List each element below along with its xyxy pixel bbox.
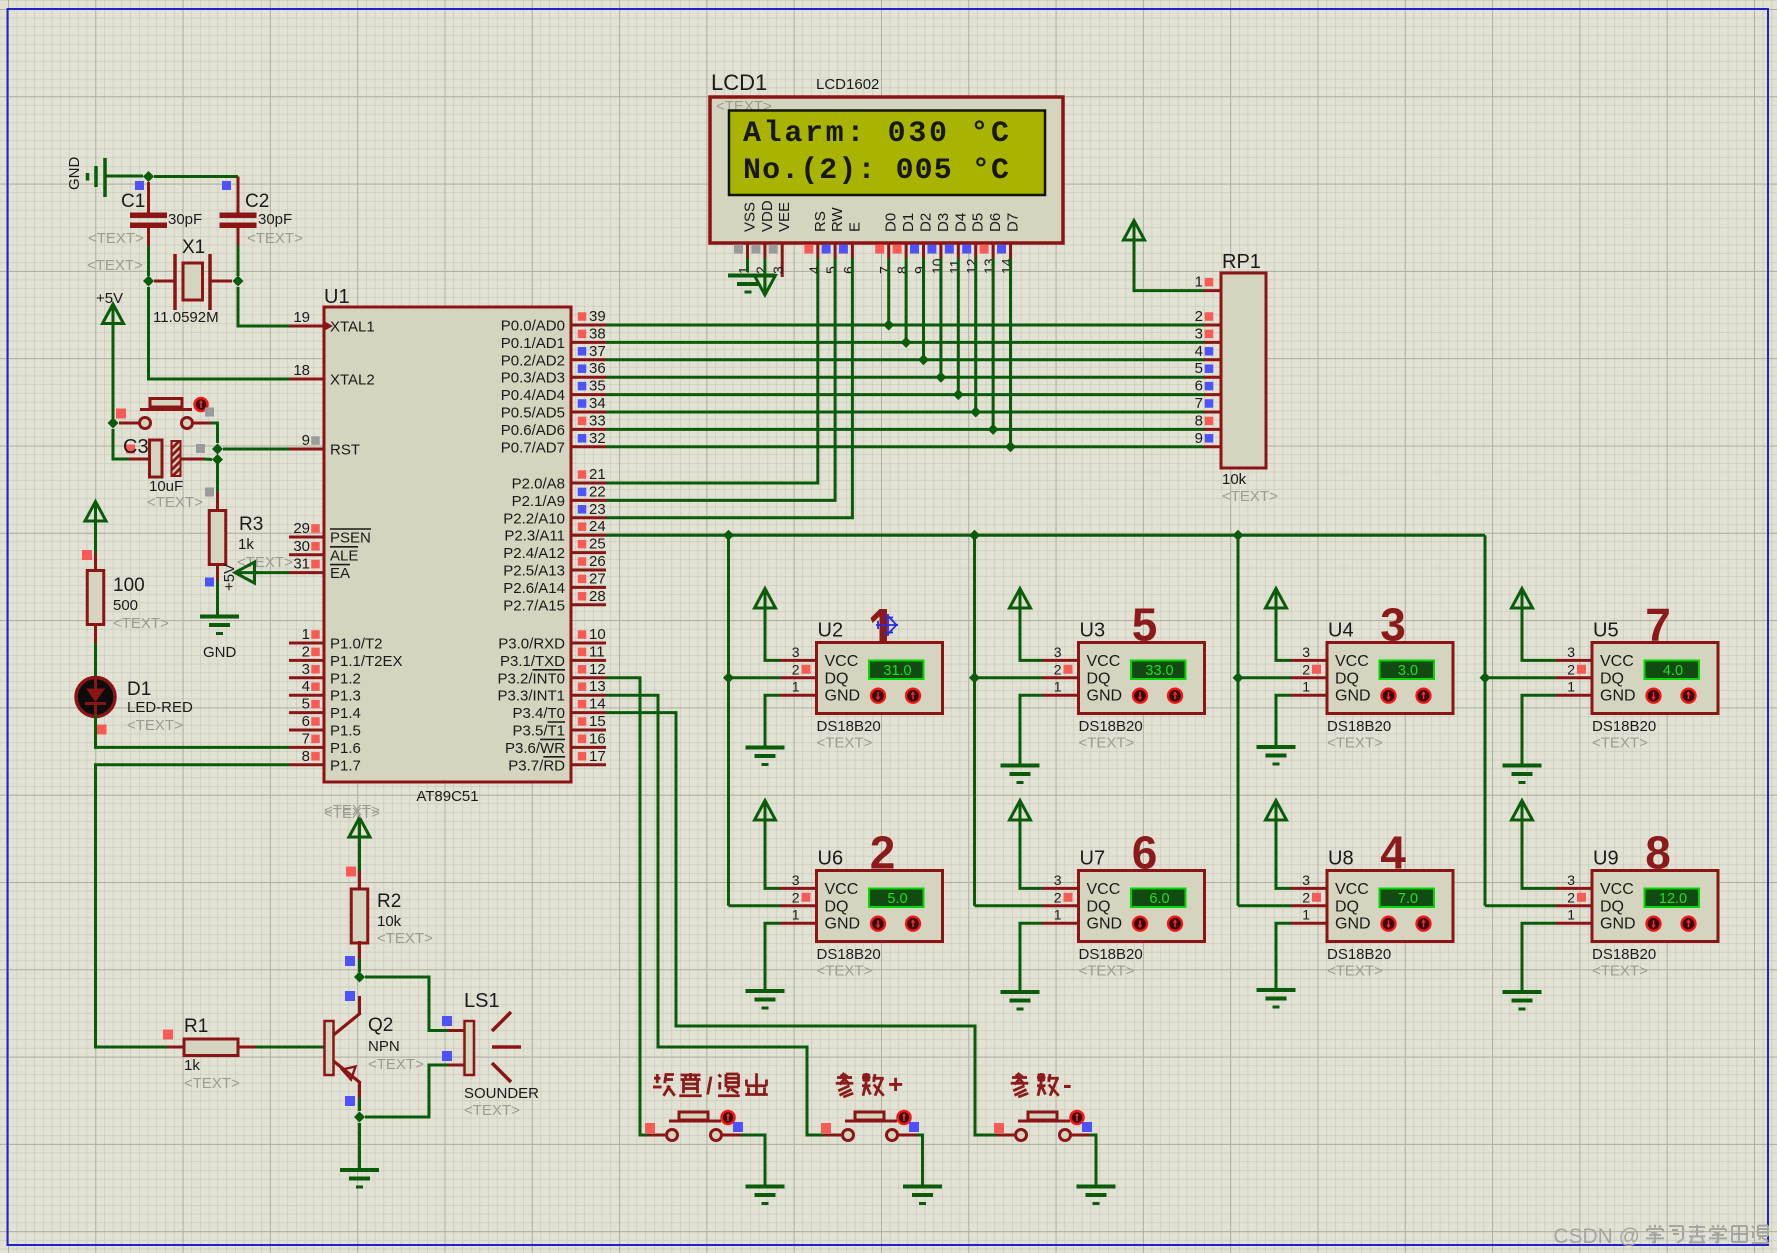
svg-text:100: 100 — [113, 575, 145, 596]
svg-text:27: 27 — [589, 570, 606, 587]
wire VCC U7 — [1020, 819, 1043, 889]
wire +5V rail to C3 — [113, 429, 129, 459]
ground terminal (top-left GND) — [66, 157, 143, 198]
ground (button PLUS) — [903, 1185, 942, 1189]
pin 28 P2.7/A15 — [503, 588, 606, 615]
svg-text:2: 2 — [1302, 661, 1310, 677]
pin 16 P3.6/WR — [505, 730, 606, 757]
svg-text:GND: GND — [1087, 688, 1123, 705]
wire DQ U6 — [729, 904, 781, 907]
svg-text:GND: GND — [1600, 916, 1636, 933]
svg-text:ALE: ALE — [330, 547, 358, 564]
pin 11 P3.1/TXD — [500, 643, 606, 670]
svg-text:4: 4 — [806, 266, 822, 274]
svg-text:Q2: Q2 — [368, 1015, 393, 1036]
svg-text:16: 16 — [589, 730, 606, 747]
svg-text:2: 2 — [1567, 889, 1575, 905]
svg-text:10k: 10k — [377, 913, 402, 930]
pin 35 P0.4/AD4 — [501, 378, 606, 405]
pin 14 LCD — [997, 243, 1015, 274]
pin 15 P3.5/T1 — [512, 713, 606, 740]
power +5V (U2) — [755, 589, 776, 609]
wire P3.3 to button PLUS — [606, 695, 823, 1135]
wire LCD D2 to P0.2 — [922, 258, 925, 360]
svg-text:2: 2 — [302, 643, 310, 660]
svg-text:C3: C3 — [123, 436, 149, 458]
svg-text:XTAL2: XTAL2 — [330, 372, 375, 389]
pin 6 LCD — [839, 243, 857, 274]
svg-text:10k: 10k — [1222, 471, 1247, 488]
ground (below U5) — [1503, 764, 1542, 768]
svg-text:VEE: VEE — [776, 202, 793, 232]
svg-text:<TEXT>: <TEXT> — [1327, 963, 1383, 980]
svg-text:VCC: VCC — [1335, 653, 1369, 670]
svg-text:D0: D0 — [883, 213, 900, 232]
svg-text:<TEXT>: <TEXT> — [368, 1056, 424, 1073]
svg-text:6.0: 6.0 — [1149, 891, 1169, 907]
svg-text:P1.0/T2: P1.0/T2 — [330, 636, 383, 653]
svg-text:D2: D2 — [918, 213, 935, 232]
svg-text:P0.5/AD5: P0.5/AD5 — [501, 405, 565, 422]
wire LCD pin 6 to P2.2 — [606, 258, 852, 518]
svg-text:1k: 1k — [238, 536, 254, 553]
power +5V (U7) — [1010, 801, 1031, 821]
sensor U6 DS18B20 — [781, 827, 943, 980]
svg-text:DS18B20: DS18B20 — [1327, 718, 1391, 735]
label PARAM+ — [836, 1069, 903, 1099]
svg-text:32: 32 — [589, 430, 606, 447]
node button/+5V — [108, 418, 119, 429]
svg-text:VCC: VCC — [825, 881, 859, 898]
wire GND rail to C2 — [154, 175, 238, 178]
pin 11 LCD — [945, 243, 963, 274]
wire DQ bus down col4 — [1484, 535, 1487, 906]
svg-text:NPN: NPN — [368, 1038, 400, 1055]
ground (below U6) — [746, 989, 785, 993]
svg-text:4: 4 — [1195, 343, 1203, 360]
svg-text:11.0592M: 11.0592M — [153, 309, 219, 326]
svg-text:DS18B20: DS18B20 — [1592, 718, 1656, 735]
svg-text:12: 12 — [964, 258, 980, 274]
wire P3.2 to button SET — [606, 678, 647, 1135]
pin 7 P1.6 — [289, 730, 361, 757]
svg-text:15: 15 — [589, 713, 606, 730]
node X1 right — [233, 276, 244, 287]
svg-text:2: 2 — [1567, 661, 1575, 677]
svg-text:VCC: VCC — [1087, 881, 1121, 898]
pin 24 P2.3/A11 — [504, 518, 606, 545]
svg-text:P2.2/A10: P2.2/A10 — [503, 510, 565, 527]
wire P2.3 DQ bus — [606, 534, 1485, 537]
svg-text:38: 38 — [589, 325, 606, 342]
wire +5V down to button — [112, 324, 115, 423]
svg-text:37: 37 — [589, 343, 606, 360]
wire emitter to LS1 — [365, 1065, 448, 1117]
pin 27 P2.6/A14 — [503, 570, 606, 597]
pin 38 P0.1/AD1 — [501, 325, 606, 352]
svg-text:12.0: 12.0 — [1659, 891, 1687, 907]
wire DQ U2 — [729, 676, 781, 679]
svg-text:GND: GND — [1600, 688, 1636, 705]
ground (LCD VSS) — [728, 276, 775, 293]
mcu U1 AT89C51 — [324, 286, 571, 822]
pin 4 LCD — [804, 243, 822, 274]
resistor R3 1k — [205, 492, 293, 587]
pin 9 LCD — [910, 243, 928, 274]
svg-text:30: 30 — [293, 538, 310, 555]
svg-text:3: 3 — [792, 872, 800, 888]
svg-text:36: 36 — [589, 360, 606, 377]
svg-text:4: 4 — [302, 678, 310, 695]
wire VCC U3 — [1020, 607, 1043, 661]
wire GND U8 — [1276, 923, 1291, 990]
wire GND U7 — [1020, 923, 1043, 992]
svg-text:DQ: DQ — [825, 670, 849, 687]
svg-text:7: 7 — [302, 730, 310, 747]
wire LCD D3 to P0.3 — [939, 258, 942, 377]
svg-text:3: 3 — [1567, 644, 1575, 660]
svg-text:<TEXT>: <TEXT> — [113, 615, 169, 632]
svg-text:6: 6 — [1195, 378, 1203, 395]
ground (below U8) — [1257, 988, 1296, 992]
svg-text:RST: RST — [330, 442, 360, 459]
pin 33 P0.6/AD6 — [501, 412, 606, 439]
svg-text:1: 1 — [1302, 907, 1310, 923]
power +5V (RP1) — [1124, 221, 1145, 241]
pin 2 LCD — [751, 243, 769, 274]
svg-text:28: 28 — [589, 588, 606, 605]
svg-text:3: 3 — [1302, 872, 1310, 888]
push-button — [645, 1111, 743, 1141]
svg-text:P3.1/TXD: P3.1/TXD — [500, 653, 565, 670]
pin 29 PSEN — [289, 520, 371, 547]
power +5V (R2) — [324, 802, 380, 839]
sensor U9 DS18B20 — [1556, 827, 1718, 980]
wire VCC U8 — [1276, 819, 1291, 889]
svg-text:1: 1 — [1567, 907, 1575, 923]
svg-text:3: 3 — [1567, 872, 1575, 888]
pin 21 P2.0/A8 — [512, 466, 606, 493]
svg-text:2: 2 — [1302, 889, 1310, 905]
node C3 right — [212, 454, 223, 465]
wire R1 to Q2 base — [256, 1046, 325, 1049]
svg-text:U3: U3 — [1080, 620, 1106, 642]
node RST — [212, 444, 223, 455]
svg-text:P1.4: P1.4 — [330, 705, 361, 722]
wire DQ U3 — [975, 676, 1043, 679]
wire P0.2 to RP1 — [606, 358, 1204, 361]
svg-text:P3.2/INT0: P3.2/INT0 — [497, 670, 565, 687]
power +5V (U5) — [1512, 589, 1533, 609]
ground (button MINUS) — [1077, 1185, 1116, 1189]
pin 9 RST — [289, 432, 360, 459]
svg-text:P3.0/RXD: P3.0/RXD — [498, 636, 565, 653]
pin 23 P2.2/A10 — [503, 501, 606, 528]
resistor R2 10k — [345, 867, 433, 967]
sounder LS1 — [442, 990, 539, 1119]
svg-text:<TEXT>: <TEXT> — [184, 1075, 240, 1092]
svg-text:<TEXT>: <TEXT> — [247, 230, 303, 247]
svg-text:5: 5 — [1195, 360, 1203, 377]
svg-text:D7: D7 — [1005, 213, 1022, 232]
wire RST node to R3 — [216, 460, 219, 494]
svg-text:7: 7 — [1195, 395, 1203, 412]
pin 10 LCD — [927, 243, 945, 274]
svg-text:P1.2: P1.2 — [330, 670, 361, 687]
svg-text:DS18B20: DS18B20 — [1592, 946, 1656, 963]
svg-text:<TEXT>: <TEXT> — [127, 717, 183, 734]
wire LCD pin 4 to P2.0 — [606, 258, 818, 483]
svg-text:XTAL1: XTAL1 — [330, 319, 375, 336]
svg-text:VCC: VCC — [1600, 881, 1634, 898]
ground (below U4) — [1257, 745, 1296, 749]
wire R100 to LED — [94, 643, 97, 677]
svg-text:500: 500 — [113, 597, 138, 614]
svg-text:U1: U1 — [324, 286, 350, 308]
pin 3 LCD — [769, 243, 787, 277]
svg-text:U9: U9 — [1593, 848, 1619, 870]
label SET/EXIT — [653, 1073, 768, 1100]
pin 10 P3.0/RXD — [498, 626, 606, 653]
svg-text:P0.7/AD7: P0.7/AD7 — [501, 439, 565, 456]
svg-text:DS18B20: DS18B20 — [1079, 718, 1143, 735]
power +5V (U8) — [1266, 801, 1287, 821]
label PARAM- — [1011, 1069, 1072, 1099]
svg-text:7.0: 7.0 — [1398, 891, 1418, 907]
svg-text:1: 1 — [1567, 679, 1575, 695]
svg-text:DS18B20: DS18B20 — [817, 946, 881, 963]
pin 34 P0.5/AD5 — [501, 395, 606, 422]
wire GND U3 — [1020, 695, 1043, 765]
pin 5 P1.4 — [289, 696, 361, 723]
resistor 100/500 — [82, 550, 169, 643]
wire DQ column — [727, 535, 730, 906]
wire GND U5 — [1522, 695, 1556, 765]
svg-text:8: 8 — [302, 748, 310, 765]
capacitor C3 10uF — [123, 436, 214, 511]
svg-text:13: 13 — [981, 258, 997, 274]
svg-text:10: 10 — [929, 258, 945, 274]
pin 5 RP1 — [1195, 360, 1221, 377]
svg-text:13: 13 — [589, 678, 606, 695]
svg-text:34: 34 — [589, 395, 606, 412]
pin 2 P1.1/T2EX — [289, 643, 403, 670]
wire DQ U5 — [1485, 676, 1556, 679]
wire GND U9 — [1522, 923, 1556, 992]
svg-text:RW: RW — [829, 206, 846, 232]
node DQ sensor row — [723, 672, 734, 683]
svg-text:12: 12 — [589, 661, 606, 678]
wire VCC U9 — [1522, 819, 1556, 889]
pin 22 P2.1/A9 — [512, 483, 606, 510]
node D2 — [918, 354, 929, 365]
wire VCC U6 — [765, 819, 781, 889]
svg-text:DQ: DQ — [1600, 670, 1624, 687]
svg-text:DS18B20: DS18B20 — [817, 718, 881, 735]
svg-text:D3: D3 — [935, 213, 952, 232]
svg-text:<TEXT>: <TEXT> — [817, 963, 873, 980]
pin 37 P0.2/AD2 — [501, 343, 606, 370]
svg-text:U4: U4 — [1328, 620, 1354, 642]
power +5V (reset rail) — [96, 290, 124, 325]
svg-text:2: 2 — [792, 889, 800, 905]
pin 17 P3.7/RD — [508, 748, 606, 775]
wire P1.7 to R1 — [96, 765, 290, 1047]
push-button — [994, 1111, 1092, 1141]
node DQ bus — [1233, 530, 1244, 541]
push-button RESET — [116, 398, 214, 429]
svg-text:<TEXT>: <TEXT> — [87, 257, 143, 274]
node DQ bus — [723, 530, 734, 541]
wire P0.0 to RP1 — [606, 324, 1204, 327]
sensor U7 DS18B20 — [1043, 827, 1205, 980]
wire DQ column — [1237, 535, 1240, 906]
svg-text:5.0: 5.0 — [887, 891, 907, 907]
svg-text:No.(2): 005 °C: No.(2): 005 °C — [743, 154, 1009, 188]
node DQ sensor row — [1480, 672, 1491, 683]
svg-text:LED-RED: LED-RED — [127, 699, 193, 716]
wire P3.4 to button MINUS — [606, 713, 996, 1135]
wire LCD D7 to P0.7 — [1009, 258, 1012, 447]
power +5V (U3) — [1010, 589, 1031, 609]
svg-text:2: 2 — [792, 661, 800, 677]
svg-text:P0.6/AD6: P0.6/AD6 — [501, 422, 565, 439]
wire P0.3 to RP1 — [606, 376, 1204, 379]
svg-text:VCC: VCC — [1335, 881, 1369, 898]
resistor R1 1k — [163, 1016, 256, 1092]
svg-text:<TEXT>: <TEXT> — [1222, 488, 1278, 505]
wire VCC U2 — [765, 607, 781, 661]
LED D1 LED-RED — [76, 678, 193, 735]
svg-text:1: 1 — [302, 626, 310, 643]
svg-text:RS: RS — [812, 211, 829, 232]
capacitor C1 — [87, 181, 202, 274]
transistor Q2 NPN — [325, 991, 425, 1106]
svg-text:9: 9 — [912, 266, 928, 274]
svg-text:D5: D5 — [970, 213, 987, 232]
power +5V (U6) — [755, 801, 776, 821]
wire P0.7 to RP1 — [606, 445, 1204, 448]
pin 4 P1.3 — [289, 678, 361, 705]
node C1/GND — [143, 171, 154, 182]
wire VCC U5 — [1522, 607, 1556, 661]
svg-text:PSEN: PSEN — [330, 530, 371, 547]
wire P0.4 to RP1 — [606, 393, 1204, 396]
svg-text:31.0: 31.0 — [883, 663, 911, 679]
svg-text:CSDN @: CSDN @ — [1553, 1225, 1640, 1248]
sensor U3 DS18B20 — [1043, 599, 1205, 752]
svg-text:GND: GND — [1335, 688, 1371, 705]
svg-text:U2: U2 — [818, 620, 844, 642]
svg-text:1: 1 — [736, 266, 752, 274]
node D1 — [901, 337, 912, 348]
svg-text:P3.4/T0: P3.4/T0 — [512, 705, 565, 722]
wire VSS to ground — [746, 258, 749, 272]
svg-text:P2.0/A8: P2.0/A8 — [512, 476, 565, 493]
wire LCD D4 to P0.4 — [957, 258, 960, 395]
power +5V (LED rail) — [85, 502, 106, 522]
svg-text:<TEXT>: <TEXT> — [147, 494, 203, 511]
push-button — [821, 1111, 919, 1141]
svg-text:+: + — [888, 1069, 903, 1099]
wire DQ U4 — [1238, 676, 1291, 679]
svg-text:2: 2 — [1054, 889, 1062, 905]
svg-text:D1: D1 — [127, 679, 151, 700]
wire collector to LS1 — [365, 977, 448, 1031]
sensor U5 DS18B20 — [1556, 599, 1718, 752]
svg-text:<TEXT>: <TEXT> — [1592, 735, 1648, 752]
pin 18 XTAL2 — [289, 362, 375, 389]
svg-text:3: 3 — [770, 266, 786, 274]
pin 6 RP1 — [1195, 378, 1221, 395]
svg-text:1: 1 — [792, 907, 800, 923]
svg-text:P0.2/AD2: P0.2/AD2 — [501, 352, 565, 369]
svg-text:25: 25 — [589, 536, 606, 553]
node X1 left — [143, 276, 154, 287]
svg-text:21: 21 — [589, 466, 606, 483]
wire C2 to X1 node — [237, 246, 240, 276]
sensor U8 DS18B20 — [1291, 827, 1453, 980]
svg-text:D4: D4 — [952, 213, 969, 232]
svg-text:18: 18 — [293, 362, 310, 379]
svg-text:R3: R3 — [239, 514, 263, 535]
svg-text:11: 11 — [589, 643, 605, 660]
svg-text:5: 5 — [302, 696, 310, 713]
svg-text:RP1: RP1 — [1222, 251, 1261, 273]
svg-text:+5V: +5V — [96, 290, 123, 307]
ground (below U3) — [1001, 764, 1040, 768]
svg-text:LCD1602: LCD1602 — [816, 76, 879, 93]
svg-text:LCD1: LCD1 — [711, 70, 767, 95]
wire button SET to ground — [741, 1135, 765, 1186]
svg-text:31: 31 — [293, 556, 310, 573]
svg-text:<TEXT>: <TEXT> — [817, 735, 873, 752]
pin 1 LCD — [734, 243, 752, 274]
svg-text:33: 33 — [589, 412, 606, 429]
pin 32 P0.7/AD7 — [501, 430, 606, 457]
svg-text:P2.4/A12: P2.4/A12 — [503, 545, 565, 562]
svg-text:P2.6/A14: P2.6/A14 — [503, 580, 565, 597]
pin 13 P3.3/INT1 — [497, 678, 606, 705]
svg-text:11: 11 — [946, 259, 962, 274]
svg-text:R2: R2 — [377, 891, 401, 912]
resistor pack RP1 10k — [1221, 251, 1278, 505]
svg-text:P0.4/AD4: P0.4/AD4 — [501, 387, 565, 404]
wire GND U2 — [765, 695, 781, 747]
power +5V (EA pin) — [221, 562, 258, 591]
svg-text:<TEXT>: <TEXT> — [464, 1102, 520, 1119]
svg-text:10: 10 — [589, 626, 606, 643]
pin 31 EA — [289, 556, 350, 583]
wire LCD D1 to P0.1 — [905, 258, 908, 342]
pin 1 RP1 — [1195, 274, 1221, 291]
svg-text:3: 3 — [1054, 644, 1062, 660]
node DQ bus — [969, 530, 980, 541]
svg-text:EA: EA — [330, 565, 350, 582]
svg-text:P3.5/T1: P3.5/T1 — [512, 723, 565, 740]
pin 7 RP1 — [1195, 395, 1221, 412]
svg-text:GND: GND — [1335, 916, 1371, 933]
svg-text:DQ: DQ — [1335, 670, 1359, 687]
svg-text:P0.3/AD3: P0.3/AD3 — [501, 370, 565, 387]
wire X1 to XTAL1 — [238, 287, 289, 326]
svg-text:4.0: 4.0 — [1663, 663, 1683, 679]
svg-text:P1.6: P1.6 — [330, 740, 361, 757]
svg-text:P1.7: P1.7 — [330, 757, 361, 774]
svg-text:DQ: DQ — [825, 898, 849, 915]
svg-text:9: 9 — [302, 432, 310, 449]
ground (below R3) — [200, 617, 239, 662]
